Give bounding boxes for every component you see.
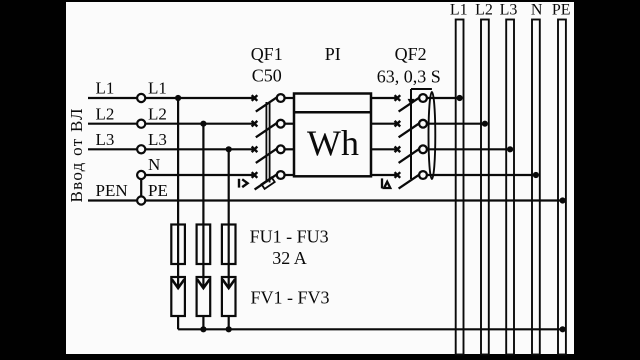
drop wire L2 to fuse/arrester (202, 124, 204, 288)
svg-text:Ввод от ВЛ: Ввод от ВЛ (67, 107, 86, 202)
svg-text:FV1 - FV3: FV1 - FV3 (251, 288, 330, 308)
svg-text:L2: L2 (96, 104, 115, 123)
QF2 pole1 fixed contact (395, 95, 401, 101)
QF1 tie bar (265, 102, 267, 183)
node N bus (533, 172, 539, 178)
QF2 trip arrow (408, 99, 415, 106)
svg-text:PE: PE (552, 2, 571, 19)
terminal circle L3 (137, 145, 145, 153)
PEN split vertical link (140, 179, 142, 196)
QF1 pole4 blade (255, 173, 279, 189)
QF2 pole3 blade (399, 148, 422, 163)
fuse FU1 (171, 225, 185, 265)
svg-text:L2: L2 (475, 2, 493, 19)
terminal circle PE (137, 196, 145, 204)
QF1 pole2 blade (256, 122, 279, 137)
bottom black bar (0, 354, 640, 360)
QF2 pole2 blade (399, 122, 422, 137)
QF2 RCD sensor ellipse (429, 92, 436, 179)
QF1 pole1 pivot circle (277, 94, 285, 102)
bus bar L1 (456, 20, 464, 355)
wire PE to PE bus (145, 199, 562, 201)
wire meter to QF2 pole3 (371, 148, 398, 150)
svg-text:L1: L1 (450, 2, 468, 19)
QF2 pole3 fixed contact (395, 147, 401, 153)
svg-text:QF1: QF1 (251, 44, 283, 64)
fuse FU2 (197, 225, 211, 265)
svg-text:63, 0,3 S: 63, 0,3 S (377, 67, 441, 87)
fuse FU3 (222, 225, 236, 265)
QF1 pole3 out wire (285, 148, 294, 150)
meter PI box (294, 94, 371, 177)
QF2 differential marker IΔ (382, 178, 390, 188)
QF1 pole4 fixed contact (252, 172, 258, 178)
QF2 pole1 blade (399, 96, 422, 111)
svg-text:PI: PI (325, 44, 341, 64)
wire QF2 to L3 bus (427, 148, 510, 150)
terminal circle N (137, 171, 145, 179)
node rail to PE bus (560, 326, 566, 332)
svg-text:N: N (531, 2, 543, 19)
breaker QF2 (395, 89, 432, 189)
wire QF2 to N bus (427, 174, 536, 176)
QF1 pole4 out wire (285, 174, 294, 176)
wire meter to QF2 pole2 (371, 123, 398, 125)
wire meter to QF2 pole1 (371, 97, 398, 99)
bus bar PE (558, 20, 566, 355)
bottom rail wire to PE bus (178, 328, 562, 330)
bus bar L2 (481, 20, 489, 355)
QF2 pole4 fixed contact (395, 172, 401, 178)
node PE bus (560, 197, 566, 203)
terminal circle L2 (137, 120, 145, 128)
arrester FV2 (197, 277, 211, 316)
right black bar (574, 0, 640, 360)
svg-text:L3: L3 (96, 130, 115, 149)
wire N to QF1 (145, 174, 254, 176)
QF2 pole1 pivot circle (419, 94, 427, 102)
svg-text:32 A: 32 A (272, 248, 307, 268)
QF1 release marker I> (239, 179, 248, 188)
svg-text:C50: C50 (252, 66, 282, 86)
svg-text:PE: PE (148, 181, 168, 200)
bus bar N (532, 20, 540, 355)
left black bar (0, 0, 66, 360)
QF1 pole1 blade (256, 96, 279, 111)
drop wire L3 to fuse/arrester (228, 149, 230, 288)
svg-text:QF2: QF2 (395, 44, 427, 64)
wire QF2 to L1 bus (427, 97, 460, 99)
terminal circle L1 (137, 94, 145, 102)
QF1 pole2 fixed contact (252, 121, 258, 127)
svg-text:L3: L3 (148, 130, 167, 149)
QF1 pole4 pivot circle (277, 171, 285, 179)
node L1 bus (457, 95, 463, 101)
node L2 tap (200, 121, 206, 127)
arrester FV3 (222, 277, 236, 316)
QF2 pole2 pivot circle (419, 120, 427, 128)
QF1 pole1 out wire (285, 97, 294, 99)
QF1 pole3 pivot circle (277, 145, 285, 153)
wire L3 left stub (88, 148, 137, 150)
QF2 pole4 pivot circle (419, 171, 427, 179)
QF2 pole2 fixed contact (395, 121, 401, 127)
meter terminal strip line (294, 111, 371, 114)
node L2 bus (482, 121, 488, 127)
svg-text:FU1 - FU3: FU1 - FU3 (250, 227, 329, 247)
QF2 pole3 pivot circle (419, 145, 427, 153)
arrester FV1 (171, 277, 185, 316)
svg-text:L3: L3 (500, 2, 518, 19)
svg-text:L1: L1 (96, 79, 115, 98)
svg-text:L1: L1 (148, 79, 167, 98)
QF2 pole4 blade (399, 173, 422, 188)
bus bar L3 (506, 20, 514, 355)
wire L1 to QF1 (145, 97, 254, 99)
breaker QF1 (252, 94, 294, 189)
wire meter to QF2 pole4 (371, 174, 398, 176)
QF1 pole2 out wire (285, 123, 294, 125)
QF2 linkage top line (411, 88, 432, 90)
node L3 bus (507, 146, 513, 152)
QF2 linkage left line (410, 89, 412, 179)
wire L1 left stub (88, 97, 137, 99)
drop wire L1 to fuse/arrester (177, 98, 179, 288)
svg-text:PEN: PEN (96, 181, 128, 200)
wire PEN left stub (88, 199, 137, 201)
QF1 pole3 fixed contact (252, 147, 258, 153)
node L3 tap (226, 146, 232, 152)
wire L2 to QF1 (145, 123, 254, 125)
wire QF2 to L2 bus (427, 123, 485, 125)
top black line (0, 0, 640, 2)
wire L2 left stub (88, 123, 137, 125)
QF1 tie bar end cap (261, 177, 274, 188)
node rail FV3 (226, 326, 232, 332)
svg-text:Wh: Wh (307, 123, 359, 163)
QF1 pole1 fixed contact (252, 95, 258, 101)
wire L3 to QF1 (145, 148, 254, 150)
node rail FV2 (200, 326, 206, 332)
node L1 tap (175, 95, 181, 101)
QF1 pole2 pivot circle (277, 120, 285, 128)
svg-text:N: N (148, 155, 160, 174)
svg-text:L2: L2 (148, 104, 167, 123)
QF1 pole3 blade (256, 148, 279, 163)
